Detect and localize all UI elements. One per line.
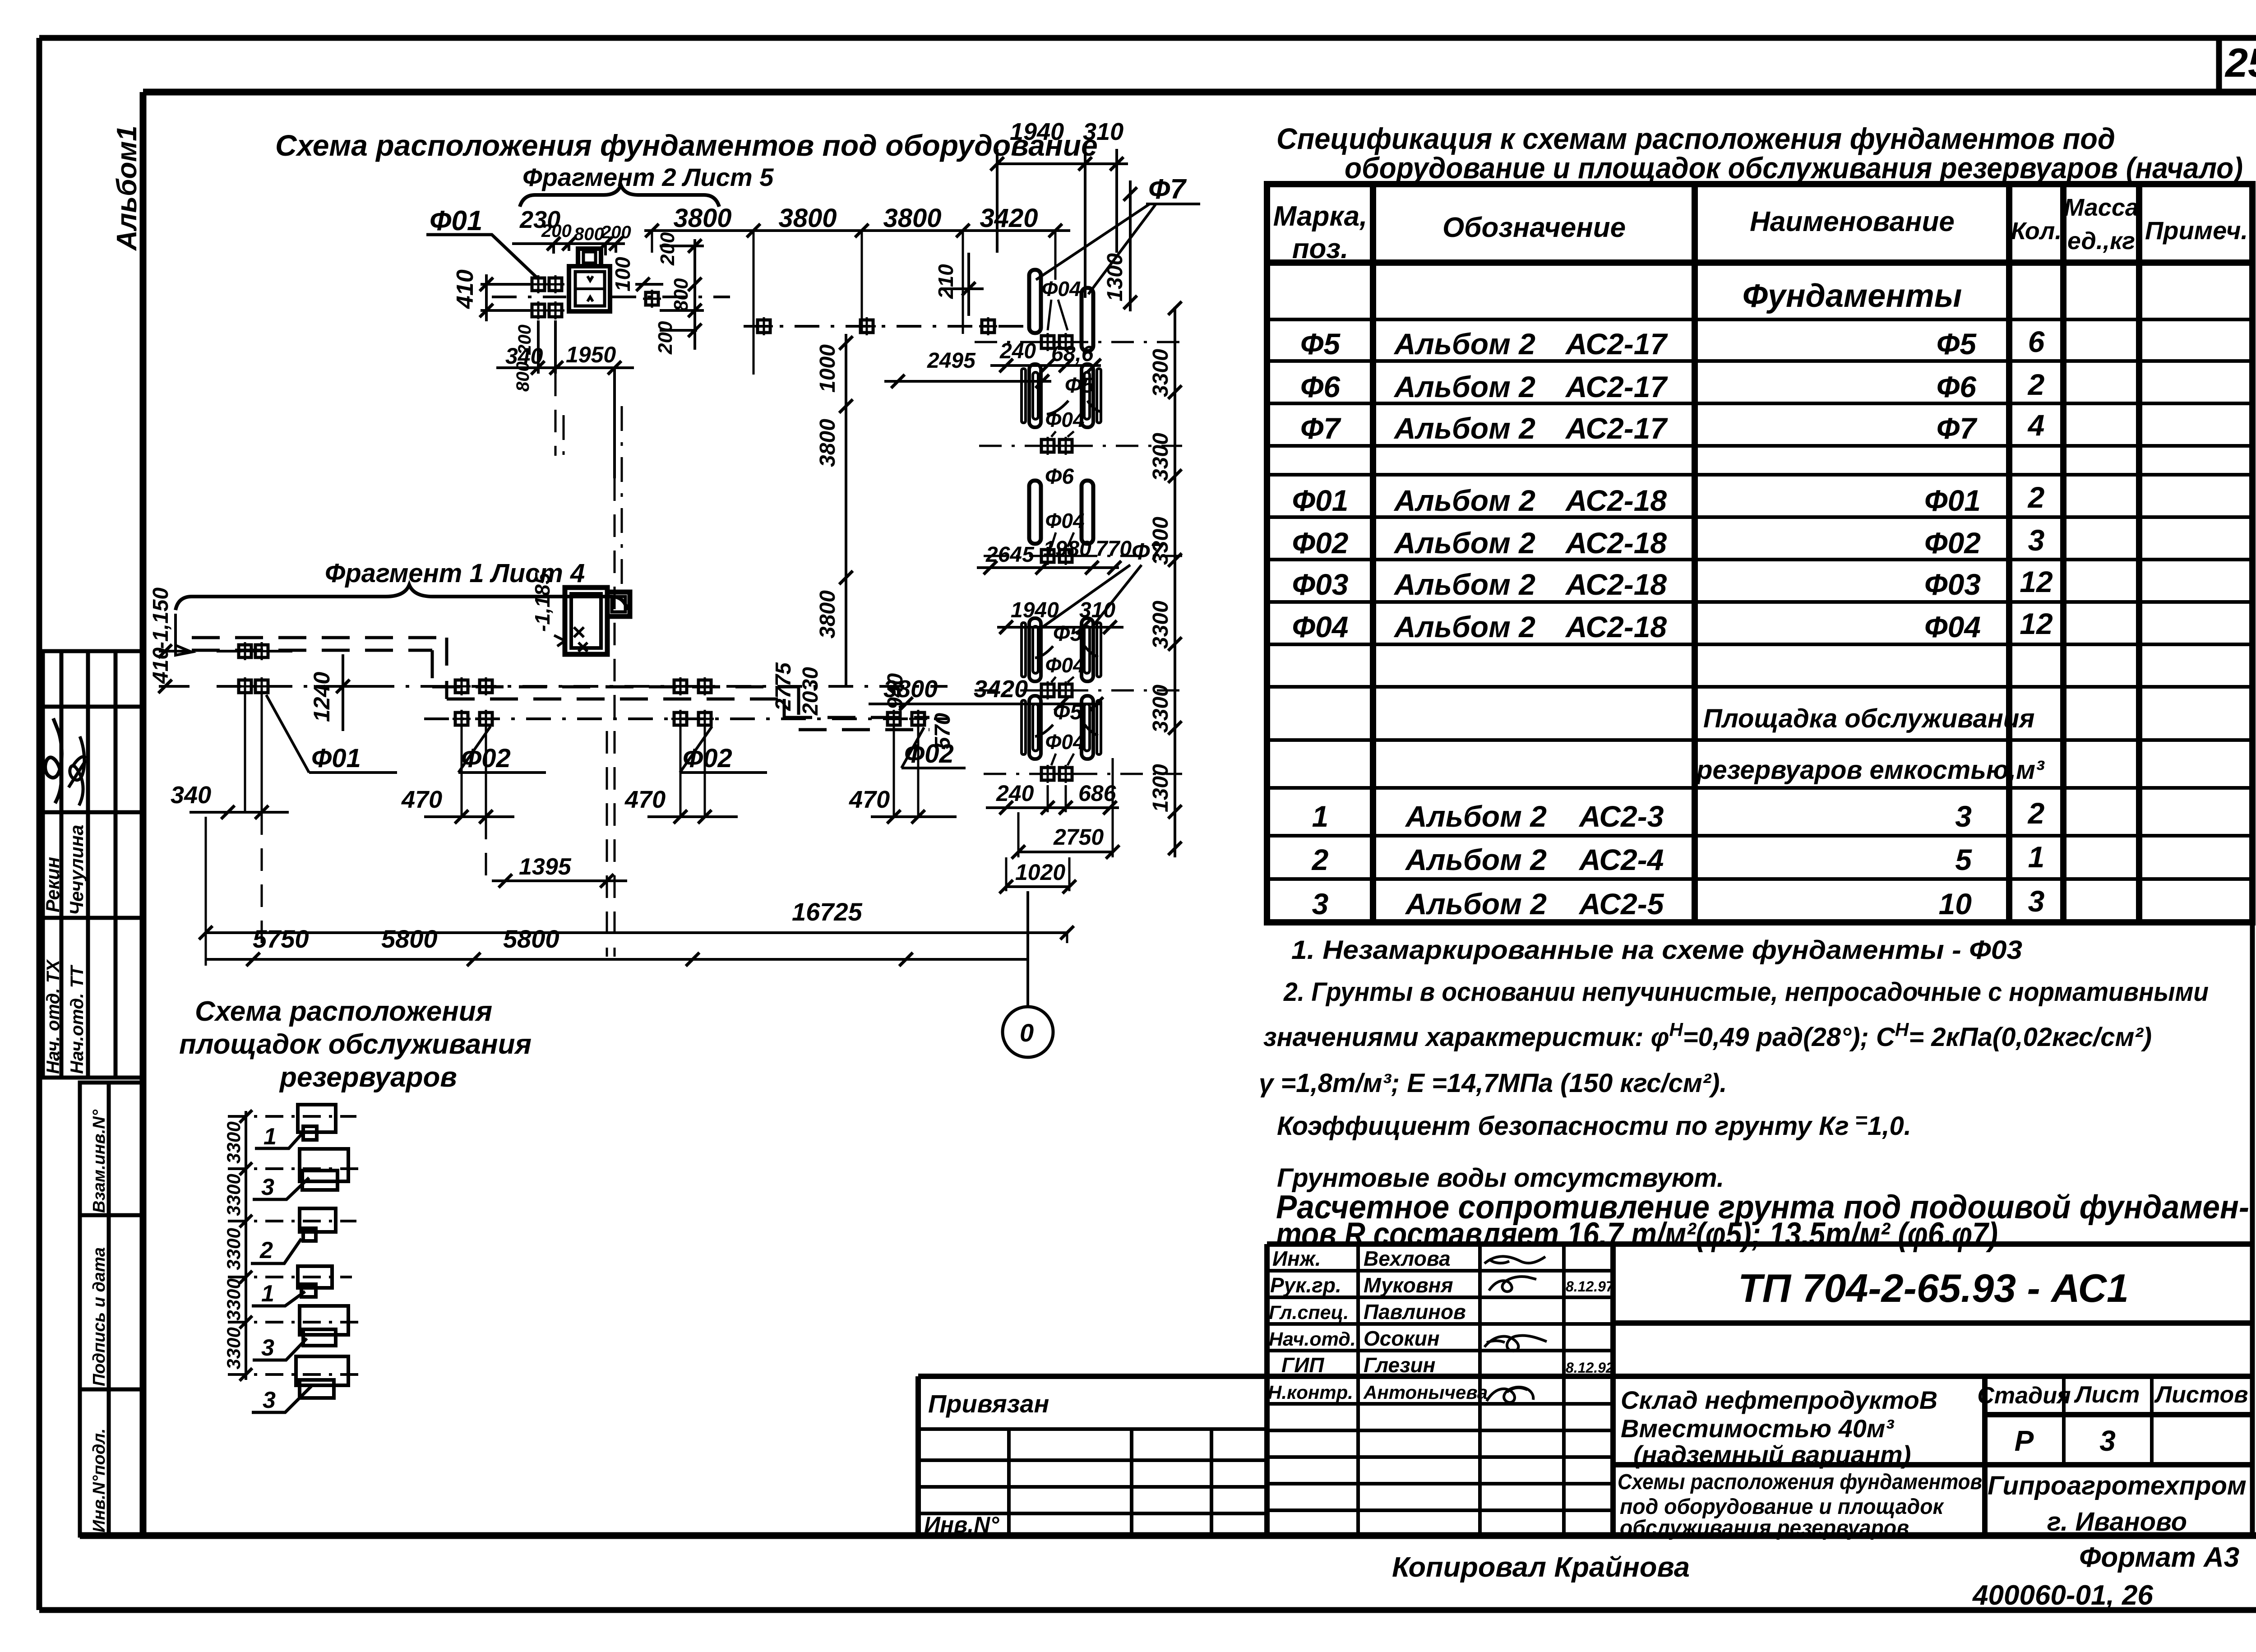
svg-text:Ф5: Ф5: [1937, 327, 1977, 361]
svg-text:16725: 16725: [792, 898, 863, 926]
svg-text:3300: 3300: [1149, 601, 1173, 649]
svg-text:3800: 3800: [816, 419, 840, 467]
svg-text:ед.,кг: ед.,кг: [2067, 227, 2135, 255]
svg-text:3300: 3300: [1149, 433, 1173, 481]
svg-text:Рук.гр.: Рук.гр.: [1270, 1273, 1341, 1297]
svg-text:Ф7: Ф7: [1300, 412, 1342, 445]
svg-text:Ф02: Ф02: [1292, 526, 1349, 560]
svg-text:3300: 3300: [1149, 349, 1173, 397]
svg-text:400060-01, 26: 400060-01, 26: [1972, 1580, 2153, 1611]
svg-text:Наименование: Наименование: [1750, 206, 1955, 237]
svg-text:Гипроагротехпром: Гипроагротехпром: [1988, 1471, 2247, 1500]
svg-text:АС2-4: АС2-4: [1578, 843, 1664, 876]
svg-text:АС2-5: АС2-5: [1578, 887, 1664, 921]
svg-text:г. Иваново: г. Иваново: [2047, 1507, 2187, 1536]
svg-text:1240: 1240: [309, 672, 334, 722]
svg-text:Ф6: Ф6: [1045, 465, 1074, 489]
svg-text:Муковня: Муковня: [1364, 1273, 1453, 1297]
svg-text:3800: 3800: [883, 204, 941, 233]
svg-text:Примеч.: Примеч.: [2145, 216, 2248, 245]
svg-text:Ф6: Ф6: [1937, 370, 1977, 403]
svg-text:2030: 2030: [799, 667, 823, 716]
svg-text:2750: 2750: [1053, 824, 1104, 850]
svg-text:1. Незамаркированные на схе: 1. Незамаркированные на схеме фундаменты…: [1291, 935, 2022, 965]
svg-text:3300: 3300: [1149, 517, 1173, 565]
svg-text:3: 3: [1955, 800, 1972, 833]
svg-text:Глезин: Глезин: [1364, 1353, 1435, 1377]
svg-text:470: 470: [401, 786, 442, 813]
svg-text:Схема расположения: Схема расположения: [195, 996, 492, 1027]
svg-text:АС2-18: АС2-18: [1565, 526, 1667, 560]
svg-text:Альбом1: Альбом1: [111, 125, 143, 251]
svg-text:100: 100: [611, 257, 634, 292]
svg-text:1940: 1940: [1010, 118, 1064, 145]
svg-text:Схемы расположения фундаментов: Схемы расположения фундаментов: [1618, 1470, 1982, 1494]
svg-text:Ф01: Ф01: [1292, 484, 1349, 517]
svg-text:1000: 1000: [816, 344, 840, 393]
svg-text:10: 10: [1939, 887, 1972, 921]
svg-text:2: 2: [1311, 843, 1329, 876]
svg-text:2: 2: [2027, 368, 2045, 401]
svg-text:3: 3: [1312, 887, 1329, 921]
svg-text:1980: 1980: [1043, 537, 1091, 561]
svg-text:Рекин: Рекин: [42, 857, 63, 912]
svg-text:Нач.отд.: Нач.отд.: [1269, 1328, 1356, 1350]
svg-text:Ф01: Ф01: [311, 744, 361, 773]
svg-text:Инв.N°подл.: Инв.N°подл.: [90, 1428, 109, 1532]
svg-text:3300: 3300: [1149, 685, 1173, 733]
svg-text:Альбом 2: Альбом 2: [1405, 843, 1547, 876]
svg-text:3300: 3300: [223, 1121, 244, 1163]
svg-text:686: 686: [1078, 781, 1117, 806]
svg-text:Альбом 2: Альбом 2: [1393, 526, 1535, 560]
svg-text:410: 410: [149, 648, 173, 684]
svg-text:2: 2: [2027, 481, 2045, 514]
svg-text:3: 3: [2099, 1425, 2116, 1457]
svg-text:Ф01: Ф01: [430, 205, 482, 236]
svg-text:значениями характеристик:: значениями характеристик: φН=0,49 рад(28…: [1263, 1019, 2152, 1052]
svg-text:Н.контр.: Н.контр.: [1268, 1382, 1353, 1403]
svg-text:Ф5: Ф5: [1065, 374, 1094, 398]
svg-text:Ф03: Ф03: [1924, 568, 1981, 601]
svg-text:3: 3: [2028, 884, 2045, 918]
svg-text:3420: 3420: [974, 676, 1028, 703]
svg-text:3300: 3300: [223, 1278, 244, 1320]
svg-text:Формат А3: Формат А3: [2079, 1542, 2239, 1573]
svg-text:Ф01: Ф01: [1924, 484, 1981, 517]
svg-text:1950: 1950: [566, 342, 616, 367]
svg-text:3420: 3420: [980, 204, 1038, 233]
svg-text:ГИП: ГИП: [1281, 1353, 1324, 1377]
svg-text:Коэффициент безопасности п: Коэффициент безопасности по грунту Кг =1…: [1277, 1109, 1911, 1141]
svg-text:Площадка обслуживания: Площадка обслуживания: [1703, 704, 2034, 733]
svg-text:6: 6: [2028, 325, 2045, 358]
svg-text:резервуаров: резервуаров: [279, 1062, 457, 1093]
svg-text:8.12.92: 8.12.92: [1566, 1360, 1614, 1376]
svg-text:410: 410: [452, 269, 478, 309]
svg-text:-1,185: -1,185: [531, 572, 554, 632]
svg-text:Нач.отд. ТТ: Нач.отд. ТТ: [67, 964, 87, 1074]
svg-text:200: 200: [656, 232, 679, 266]
svg-text:Гл.спец.: Гл.спец.: [1269, 1302, 1349, 1323]
svg-text:Ф5: Ф5: [1300, 327, 1341, 361]
svg-text:Грунтовые воды отсутствуют: Грунтовые воды отсутствуют.: [1277, 1163, 1724, 1193]
svg-text:Кол.: Кол.: [2011, 217, 2062, 245]
svg-text:12: 12: [2020, 607, 2053, 640]
svg-text:25: 25: [2224, 41, 2256, 86]
svg-text:240: 240: [996, 781, 1034, 806]
svg-text:Ф04: Ф04: [1924, 610, 1981, 643]
svg-text:обслуживания резервуаров: обслуживания резервуаров: [1620, 1516, 1909, 1540]
svg-text:оборудование и площадок обс: оборудование и площадок обслуживания рез…: [1345, 151, 2243, 185]
svg-text:Альбом 2: Альбом 2: [1393, 412, 1535, 445]
svg-text:АС2-18: АС2-18: [1565, 568, 1667, 601]
svg-text:340: 340: [171, 782, 211, 809]
svg-text:3: 3: [263, 1387, 276, 1413]
svg-text:Антонычева: Антонычева: [1363, 1382, 1488, 1403]
svg-text:Обозначение: Обозначение: [1442, 212, 1626, 243]
svg-text:Альбом 2: Альбом 2: [1405, 887, 1547, 921]
svg-text:770: 770: [1096, 537, 1132, 561]
svg-text:Подпись и дата: Подпись и дата: [90, 1247, 109, 1386]
svg-text:210: 210: [934, 264, 957, 299]
svg-text:1: 1: [1312, 800, 1329, 833]
svg-text:470: 470: [624, 786, 666, 813]
svg-text:1: 1: [261, 1281, 274, 1307]
svg-text:310: 310: [1083, 118, 1123, 145]
svg-text:3: 3: [261, 1174, 274, 1200]
svg-text:2: 2: [259, 1237, 273, 1263]
svg-text:ТП 704-2-65.93 - АС1: ТП 704-2-65.93 - АС1: [1738, 1266, 2129, 1310]
svg-text:Ф02: Ф02: [904, 739, 954, 768]
svg-text:-1,150: -1,150: [149, 588, 173, 649]
svg-text:Листов: Листов: [2154, 1382, 2248, 1408]
svg-text:Взам.инв.N°: Взам.инв.N°: [90, 1109, 109, 1213]
svg-text:АС2-18: АС2-18: [1565, 484, 1667, 517]
svg-text:Ф04: Ф04: [1045, 653, 1084, 677]
svg-text:1: 1: [2028, 840, 2045, 874]
svg-text:200: 200: [541, 221, 572, 241]
svg-text:8.12.97: 8.12.97: [1566, 1278, 1615, 1295]
svg-text:800: 800: [670, 278, 692, 311]
svg-text:200: 200: [654, 321, 676, 355]
svg-text:Р: Р: [2015, 1425, 2034, 1457]
svg-text:Инж.: Инж.: [1272, 1247, 1321, 1270]
svg-text:3800: 3800: [816, 590, 840, 639]
svg-text:2495: 2495: [927, 349, 976, 373]
svg-text:АС2-3: АС2-3: [1578, 800, 1664, 833]
svg-text:АС2-18: АС2-18: [1565, 610, 1667, 643]
svg-text:12: 12: [2020, 565, 2053, 598]
svg-text:Спецификация к схемам распо: Спецификация к схемам расположения фунда…: [1276, 122, 2115, 155]
svg-text:Стадия: Стадия: [1977, 1383, 2071, 1409]
svg-text:Склад нефтепродуктоВ: Склад нефтепродуктоВ: [1621, 1386, 1937, 1414]
svg-text:Вместимостью 40м³: Вместимостью 40м³: [1621, 1414, 1894, 1443]
svg-text:Ф04: Ф04: [1041, 277, 1081, 301]
svg-text:Ф7: Ф7: [1148, 174, 1187, 205]
svg-text:Альбом 2: Альбом 2: [1393, 484, 1535, 517]
svg-text:площадок обслуживания: площадок обслуживания: [179, 1029, 532, 1060]
svg-text:Привязан: Привязан: [928, 1389, 1049, 1418]
svg-text:0: 0: [1020, 1018, 1034, 1047]
svg-text:2. Грунты в основании непучи: 2. Грунты в основании непучинистые, непр…: [1283, 977, 2209, 1007]
svg-text:3300: 3300: [223, 1174, 244, 1216]
svg-text:5800: 5800: [503, 925, 559, 953]
svg-text:5: 5: [1955, 843, 1972, 876]
svg-text:под оборудование и площадок: под оборудование и площадок: [1620, 1495, 1945, 1519]
svg-text:Вехлова: Вехлова: [1364, 1247, 1451, 1270]
svg-text:Альбом 2: Альбом 2: [1405, 800, 1547, 833]
svg-text:5750: 5750: [253, 925, 309, 953]
svg-text:Ф7: Ф7: [1937, 412, 1978, 445]
svg-text:Ф6: Ф6: [1300, 370, 1341, 403]
svg-text:Ф04: Ф04: [1045, 509, 1084, 532]
svg-text:1: 1: [264, 1124, 277, 1150]
svg-text:Осокин: Осокин: [1364, 1327, 1440, 1350]
svg-text:Масса: Масса: [2064, 194, 2139, 221]
svg-text:резервуаров емкостью,м³: резервуаров емкостью,м³: [1696, 755, 2045, 785]
svg-text:Альбом 2: Альбом 2: [1393, 370, 1535, 403]
svg-text:2775: 2775: [772, 662, 795, 711]
svg-text:Ф04: Ф04: [1045, 730, 1084, 754]
svg-text:Ф5: Ф5: [1053, 622, 1082, 646]
svg-text:Копировал Крайнова: Копировал Крайнова: [1392, 1552, 1690, 1583]
svg-text:Альбом 2: Альбом 2: [1393, 610, 1535, 643]
svg-text:2: 2: [2027, 796, 2045, 830]
svg-text:Павлинов: Павлинов: [1364, 1300, 1466, 1323]
svg-text:поз.: поз.: [1292, 233, 1349, 264]
svg-text:(надземный вариант): (надземный вариант): [1633, 1440, 1911, 1469]
svg-text:200: 200: [601, 222, 631, 242]
svg-text:1395: 1395: [519, 854, 572, 880]
svg-text:Фрагмент 2 Лист 5: Фрагмент 2 Лист 5: [522, 163, 774, 191]
svg-text:1300: 1300: [1149, 764, 1173, 812]
svg-text:4: 4: [2027, 408, 2045, 442]
svg-text:Марка,: Марка,: [1273, 201, 1368, 232]
svg-text:3: 3: [2028, 523, 2045, 557]
svg-text:1020: 1020: [1015, 860, 1065, 885]
svg-text:800: 800: [574, 224, 604, 244]
svg-text:3800: 3800: [778, 204, 837, 233]
svg-text:АС2-17: АС2-17: [1565, 370, 1668, 403]
svg-text:Альбом 2: Альбом 2: [1393, 327, 1535, 361]
svg-text:Схема расположения фундамент: Схема расположения фундаментов под обору…: [275, 129, 1098, 162]
svg-text:Фундаменты: Фундаменты: [1743, 278, 1962, 314]
svg-text:АС2-17: АС2-17: [1565, 412, 1668, 445]
svg-text:Ф02: Ф02: [1924, 526, 1981, 560]
svg-text:3300: 3300: [223, 1228, 244, 1270]
svg-text:Лист: Лист: [2074, 1382, 2140, 1408]
svg-text:Ф03: Ф03: [1292, 568, 1349, 601]
svg-text:3: 3: [261, 1335, 274, 1361]
svg-text:Нач. отд. ТХ: Нач. отд. ТХ: [43, 959, 63, 1074]
svg-text:Ф04: Ф04: [1045, 408, 1084, 431]
svg-text:3300: 3300: [223, 1327, 244, 1369]
svg-text:1300: 1300: [1103, 253, 1127, 301]
svg-text:Чечулина: Чечулина: [66, 825, 87, 915]
svg-text:АС2-17: АС2-17: [1565, 327, 1668, 361]
svg-text:3800: 3800: [673, 204, 731, 233]
svg-text:Ф04: Ф04: [1292, 610, 1349, 643]
svg-text:Альбом 2: Альбом 2: [1393, 568, 1535, 601]
svg-text:Инв.N°: Инв.N°: [924, 1512, 999, 1537]
svg-text:470: 470: [849, 786, 890, 813]
svg-text:5800: 5800: [381, 925, 438, 953]
svg-text:γ =1,8т/м³; Е =14,7МПа (150: γ =1,8т/м³; Е =14,7МПа (150 кгс/см²).: [1259, 1069, 1727, 1098]
